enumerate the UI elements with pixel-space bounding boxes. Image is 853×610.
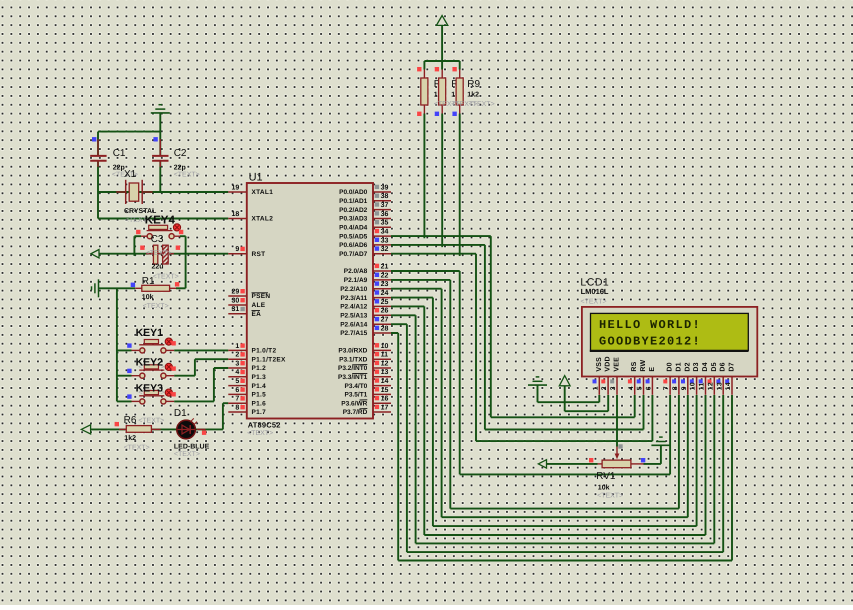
svg-text:VEE: VEE <box>614 357 621 372</box>
svg-text:<TEXT>: <TEXT> <box>143 303 169 310</box>
svg-text:R1: R1 <box>142 276 155 287</box>
svg-text:P3.4/T0: P3.4/T0 <box>345 383 368 390</box>
svg-text:34: 34 <box>381 229 389 236</box>
svg-text:30: 30 <box>232 297 240 304</box>
svg-text:<TEXT>: <TEXT> <box>174 171 200 178</box>
svg-text:D6: D6 <box>720 362 727 371</box>
svg-text:3: 3 <box>235 360 239 367</box>
svg-text:D1: D1 <box>174 408 187 419</box>
svg-text:P2.7/A15: P2.7/A15 <box>340 330 367 337</box>
svg-text:8: 8 <box>672 386 679 390</box>
svg-text:GOODBYE2012!: GOODBYE2012! <box>599 335 701 349</box>
svg-text:22u: 22u <box>152 264 164 271</box>
svg-text:12: 12 <box>707 382 714 390</box>
svg-text:D2: D2 <box>684 362 691 371</box>
svg-text:3: 3 <box>610 386 617 390</box>
svg-text:10: 10 <box>381 343 389 350</box>
svg-text:P2.3/A11: P2.3/A11 <box>341 295 368 302</box>
svg-text:P3.0/RXD: P3.0/RXD <box>338 348 367 355</box>
svg-text:36: 36 <box>381 211 389 218</box>
svg-text:P1.0/T2: P1.0/T2 <box>252 348 277 355</box>
svg-text:P1.1/T2EX: P1.1/T2EX <box>252 356 286 363</box>
svg-text:P1.7: P1.7 <box>252 409 267 416</box>
svg-text:10k: 10k <box>142 293 154 301</box>
svg-text:R6: R6 <box>124 415 137 426</box>
svg-text:8: 8 <box>235 404 239 411</box>
svg-text:U1: U1 <box>249 171 263 183</box>
svg-text:P2.2/A10: P2.2/A10 <box>340 286 367 293</box>
svg-text:VDD: VDD <box>605 356 612 371</box>
svg-text:25: 25 <box>381 299 389 306</box>
svg-text:AT89C52: AT89C52 <box>248 421 281 430</box>
svg-text:2: 2 <box>601 386 608 390</box>
svg-text:C1: C1 <box>113 148 126 159</box>
svg-text:C3: C3 <box>151 234 164 245</box>
svg-text:38: 38 <box>381 193 389 200</box>
svg-text:13: 13 <box>716 382 723 390</box>
svg-text:ALE: ALE <box>252 302 266 309</box>
svg-text:P0.4/AD4: P0.4/AD4 <box>339 225 368 232</box>
svg-text:P0.0/AD0: P0.0/AD0 <box>339 189 368 196</box>
svg-text:C2: C2 <box>174 148 187 159</box>
svg-text:P2.0/A8: P2.0/A8 <box>344 268 368 275</box>
svg-text:EA: EA <box>252 311 262 318</box>
svg-text:X1: X1 <box>124 169 137 180</box>
svg-text:P3.3/INT1: P3.3/INT1 <box>338 374 368 381</box>
svg-text:29: 29 <box>232 288 240 295</box>
svg-text:P2.5/A13: P2.5/A13 <box>340 313 367 320</box>
svg-text:<TEXT>: <TEXT> <box>469 101 495 108</box>
svg-text:VSS: VSS <box>596 357 603 372</box>
svg-text:P2.6/A14: P2.6/A14 <box>340 321 367 328</box>
svg-text:14: 14 <box>725 382 732 390</box>
svg-text:15: 15 <box>381 387 389 394</box>
svg-text:28: 28 <box>381 325 389 332</box>
svg-text:1: 1 <box>235 343 239 350</box>
svg-text:P1.2: P1.2 <box>252 365 267 372</box>
svg-text:D1: D1 <box>675 362 682 371</box>
svg-text:19: 19 <box>232 184 240 191</box>
svg-text:P3.6/WR: P3.6/WR <box>341 400 367 407</box>
svg-text:RW: RW <box>640 359 647 371</box>
svg-text:P3.1/TXD: P3.1/TXD <box>339 356 367 363</box>
svg-text:LM016L: LM016L <box>581 287 609 296</box>
svg-text:<TEXT>: <TEXT> <box>138 417 164 424</box>
svg-text:P0.7/AD7: P0.7/AD7 <box>339 251 368 258</box>
svg-text:P0.5/AD5: P0.5/AD5 <box>339 233 368 240</box>
svg-text:1: 1 <box>592 386 599 390</box>
svg-text:26: 26 <box>381 308 389 315</box>
svg-text:P0.6/AD6: P0.6/AD6 <box>339 242 368 249</box>
svg-text:<TEXT>: <TEXT> <box>581 298 607 305</box>
svg-text:P2.4/A12: P2.4/A12 <box>340 304 367 311</box>
svg-text:P3.2/INT0: P3.2/INT0 <box>338 365 368 372</box>
svg-text:R9: R9 <box>467 79 480 90</box>
svg-text:D5: D5 <box>711 362 718 371</box>
svg-text:<TEXT>: <TEXT> <box>124 445 150 452</box>
svg-text:24: 24 <box>381 290 389 297</box>
svg-text:2: 2 <box>235 352 239 359</box>
svg-text:18: 18 <box>232 211 240 218</box>
svg-text:<TEXT>: <TEXT> <box>153 274 179 281</box>
svg-text:27: 27 <box>381 317 389 324</box>
svg-text:37: 37 <box>381 202 389 209</box>
svg-text:4: 4 <box>235 369 239 376</box>
svg-text:9: 9 <box>235 246 239 253</box>
svg-text:11: 11 <box>699 382 706 390</box>
svg-text:7: 7 <box>663 386 670 390</box>
svg-text:23: 23 <box>381 281 389 288</box>
svg-text:13: 13 <box>381 369 389 376</box>
svg-text:35: 35 <box>381 220 389 227</box>
svg-text:6: 6 <box>235 387 239 394</box>
svg-text:11: 11 <box>381 352 389 359</box>
svg-text:31: 31 <box>232 306 240 313</box>
svg-text:33: 33 <box>381 237 389 244</box>
svg-text:P0.2/AD2: P0.2/AD2 <box>339 207 368 214</box>
svg-text:5: 5 <box>235 378 239 385</box>
svg-text:D7: D7 <box>729 362 736 371</box>
svg-text:P3.5/T1: P3.5/T1 <box>345 392 368 399</box>
svg-text:P2.1/A9: P2.1/A9 <box>344 277 368 284</box>
svg-text:KEY3: KEY3 <box>136 382 164 394</box>
svg-text:HELLO WORLD!: HELLO WORLD! <box>599 318 701 332</box>
svg-text:<TEXT>: <TEXT> <box>174 451 200 458</box>
svg-text:P0.1/AD1: P0.1/AD1 <box>339 198 368 205</box>
svg-text:14: 14 <box>381 378 389 385</box>
svg-text:9: 9 <box>681 386 688 390</box>
svg-text:4: 4 <box>628 386 635 390</box>
svg-text:10k: 10k <box>598 483 610 491</box>
svg-text:7: 7 <box>235 396 239 403</box>
svg-text:16: 16 <box>381 396 389 403</box>
svg-text:KEY4: KEY4 <box>145 215 176 227</box>
svg-text:6: 6 <box>646 386 653 390</box>
svg-text:P1.3: P1.3 <box>252 374 267 381</box>
svg-text:1k2: 1k2 <box>124 434 136 442</box>
svg-text:PSEN: PSEN <box>252 293 271 300</box>
svg-text:<TEXT>: <TEXT> <box>597 493 623 500</box>
svg-text:12: 12 <box>381 360 389 367</box>
svg-text:LED-BLUE: LED-BLUE <box>174 443 210 450</box>
svg-text:XTAL1: XTAL1 <box>252 189 274 196</box>
svg-text:P1.5: P1.5 <box>252 392 267 399</box>
svg-text:D4: D4 <box>702 362 709 371</box>
svg-text:5: 5 <box>637 386 644 390</box>
svg-text:P3.7/RD: P3.7/RD <box>343 409 368 416</box>
svg-text:1k2: 1k2 <box>467 91 479 99</box>
svg-text:KEY1: KEY1 <box>136 327 164 339</box>
svg-text:P1.4: P1.4 <box>252 383 267 390</box>
svg-text:<TEXT>: <TEXT> <box>247 430 273 437</box>
svg-text:32: 32 <box>381 246 389 253</box>
svg-text:P0.3/AD3: P0.3/AD3 <box>339 216 368 223</box>
svg-text:E: E <box>649 367 656 372</box>
svg-text:<TEXT>: <TEXT> <box>146 250 172 257</box>
svg-text:RV1: RV1 <box>596 471 616 482</box>
svg-text:D0: D0 <box>667 362 674 371</box>
svg-text:RST: RST <box>252 251 266 258</box>
svg-text:RS: RS <box>631 361 638 371</box>
svg-text:KEY2: KEY2 <box>136 357 164 369</box>
svg-text:21: 21 <box>381 263 389 270</box>
svg-text:D3: D3 <box>693 362 700 371</box>
svg-text:17: 17 <box>381 404 389 411</box>
svg-text:P1.6: P1.6 <box>252 400 267 407</box>
svg-text:39: 39 <box>381 184 389 191</box>
svg-text:10: 10 <box>690 382 697 390</box>
svg-text:22: 22 <box>381 272 389 279</box>
svg-text:XTAL2: XTAL2 <box>252 216 274 223</box>
